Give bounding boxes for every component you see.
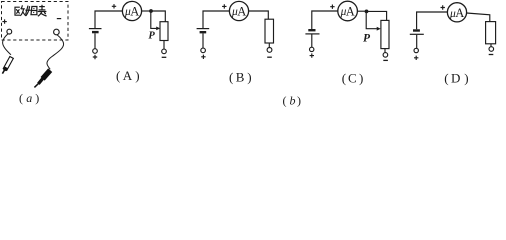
svg-text:A: A — [123, 68, 133, 83]
battery cell (A) short negative plate — [92, 31, 99, 33]
svg-text:P: P — [148, 30, 155, 41]
resistor body R (D) — [486, 22, 496, 44]
svg-text:A: A — [346, 5, 355, 19]
battery cell (C) long positive plate — [305, 33, 319, 35]
svg-text:): ) — [135, 68, 139, 83]
wiper arm P with arrow (A) — [151, 11, 157, 28]
test lead wire left — [3, 34, 11, 55]
svg-text:(: ( — [283, 93, 287, 107]
wire battery to terminal (B) — [202, 33, 204, 48]
terminal post left — [7, 29, 12, 34]
minus label bottom (D) — [489, 54, 494, 56]
terminal post left (A) — [93, 49, 98, 54]
svg-text:(: ( — [229, 70, 233, 85]
svg-text:C: C — [348, 70, 357, 85]
svg-text:): ) — [464, 71, 468, 86]
wiper arm P with arrow (C) — [366, 11, 377, 28]
ammeter μA (B) — [229, 1, 248, 20]
terminal post right (A) — [162, 49, 167, 54]
svg-text:(: ( — [342, 70, 346, 85]
svg-text:(: ( — [444, 71, 448, 86]
svg-text:A: A — [130, 5, 139, 19]
battery cell (A) long positive plate — [89, 28, 102, 30]
wire node to resistor top (A) — [151, 11, 165, 22]
svg-text:B: B — [236, 70, 245, 85]
wire battery to terminal (D) — [416, 35, 418, 48]
svg-text:b: b — [290, 93, 296, 107]
test probe left — [2, 57, 13, 74]
glyph 姆 — [26, 6, 28, 15]
wire battery to meter (B) — [203, 11, 230, 28]
ammeter μA (C) — [338, 1, 358, 21]
plus label bottom (B) — [201, 55, 205, 59]
terminal post left (B) — [201, 48, 206, 53]
svg-text:A: A — [237, 5, 246, 19]
label 欧姆表 (ohmmeter) hand-drawn glyphs — [15, 5, 47, 16]
glyph 表 — [41, 5, 43, 10]
wire meter to resistor (B) — [249, 11, 269, 19]
svg-text:(: ( — [19, 91, 23, 105]
terminal post left (C) — [310, 47, 314, 51]
wire resistor to terminal (A) — [163, 41, 165, 50]
terminal post right (C) — [383, 53, 388, 58]
wire meter to node (C) — [357, 10, 366, 12]
plus polarity label (D top) — [441, 5, 445, 9]
plus label bottom (A) — [93, 55, 97, 59]
glyph 欧 — [15, 7, 20, 15]
battery cell (B) long positive plate — [197, 28, 210, 30]
meter text μA (A) — [124, 5, 139, 19]
svg-text:a: a — [26, 91, 32, 105]
junction node (A) — [149, 9, 153, 13]
wire node to resistor top (C) — [367, 11, 387, 20]
battery cell (C) short negative plate (top) — [308, 29, 315, 31]
rheostat body R (A) — [160, 22, 168, 41]
svg-text:P: P — [363, 33, 371, 45]
plus polarity label (C top) — [330, 5, 334, 9]
ohmmeter box (a) dashed enclosure — [2, 2, 69, 41]
svg-text:): ) — [247, 70, 251, 85]
svg-text:): ) — [297, 93, 301, 107]
meter text μA (C) — [340, 5, 355, 19]
wire battery to meter (D) — [417, 12, 449, 29]
plus polarity label (B top) — [222, 4, 226, 8]
svg-text:): ) — [35, 91, 39, 105]
meter text μA (D) — [449, 6, 464, 20]
wire battery to terminal (C) — [311, 35, 313, 48]
minus label bottom (A) — [162, 56, 167, 58]
wire battery to meter (A) — [95, 11, 122, 28]
terminal post right — [54, 29, 60, 35]
plus polarity label (A top) — [112, 4, 116, 8]
meter text μA (B) — [231, 5, 246, 19]
ammeter μA (A) — [122, 1, 141, 20]
svg-text:): ) — [359, 70, 363, 85]
minus terminal label inside box — [57, 18, 61, 20]
svg-text:A: A — [455, 6, 464, 20]
terminal post right (D) — [489, 47, 494, 52]
plus label bottom (C) — [310, 53, 314, 57]
wire battery to meter (C) — [312, 11, 338, 29]
junction node (C) — [365, 10, 369, 14]
rheostat body R (C) — [381, 20, 389, 48]
wire resistor to terminal (D) — [490, 44, 492, 47]
wire battery to terminal (A) — [94, 33, 96, 48]
test probe right — [34, 70, 50, 87]
battery cell (B) short negative plate — [200, 31, 207, 33]
ammeter μA (D) — [447, 3, 466, 22]
plus label bottom (D) — [414, 56, 418, 60]
wire resistor to terminal (C) — [384, 49, 386, 53]
minus label bottom (C) — [383, 59, 388, 61]
svg-text:D: D — [451, 71, 460, 86]
resistor body R (B) — [265, 19, 274, 43]
test lead wire right — [47, 35, 64, 70]
wire meter to resistor (D) — [467, 13, 490, 22]
terminal post left (D) — [414, 48, 418, 52]
plus terminal label inside box — [2, 19, 6, 23]
svg-text:(: ( — [116, 68, 120, 83]
terminal post right (B) — [267, 48, 272, 53]
wire resistor to terminal (B) — [268, 43, 270, 48]
minus label bottom (B) — [267, 56, 272, 58]
wire meter to node (A) — [142, 10, 151, 12]
battery cell (D) long positive plate — [410, 33, 424, 35]
battery cell (D) short negative plate (top) — [413, 29, 420, 31]
